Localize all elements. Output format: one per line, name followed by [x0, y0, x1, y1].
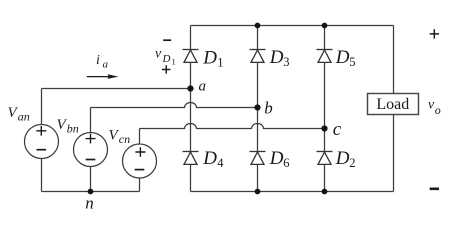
svg-text:a: a: [103, 59, 109, 71]
svg-text:an: an: [18, 110, 30, 124]
svg-text:5: 5: [349, 55, 355, 69]
svg-text:b: b: [264, 99, 273, 118]
svg-text:D: D: [335, 47, 350, 68]
svg-text:1: 1: [172, 57, 176, 67]
svg-text:n: n: [85, 194, 94, 213]
svg-text:a: a: [199, 79, 207, 95]
svg-text:i: i: [96, 53, 100, 68]
svg-text:D: D: [202, 48, 217, 69]
svg-text:o: o: [435, 103, 441, 117]
svg-text:1: 1: [217, 56, 223, 70]
svg-text:D: D: [269, 47, 284, 68]
svg-text:c: c: [333, 119, 342, 140]
svg-text:cn: cn: [119, 132, 130, 146]
svg-text:D: D: [202, 148, 217, 169]
svg-text:v: v: [155, 47, 162, 62]
svg-text:bn: bn: [67, 122, 79, 136]
svg-text:6: 6: [283, 156, 289, 170]
svg-text:4: 4: [217, 156, 224, 170]
svg-text:Load: Load: [376, 96, 409, 113]
svg-text:3: 3: [283, 55, 289, 69]
svg-text:D: D: [269, 148, 284, 169]
svg-text:D: D: [335, 148, 350, 169]
svg-text:2: 2: [349, 156, 355, 170]
svg-text:D: D: [162, 53, 171, 65]
